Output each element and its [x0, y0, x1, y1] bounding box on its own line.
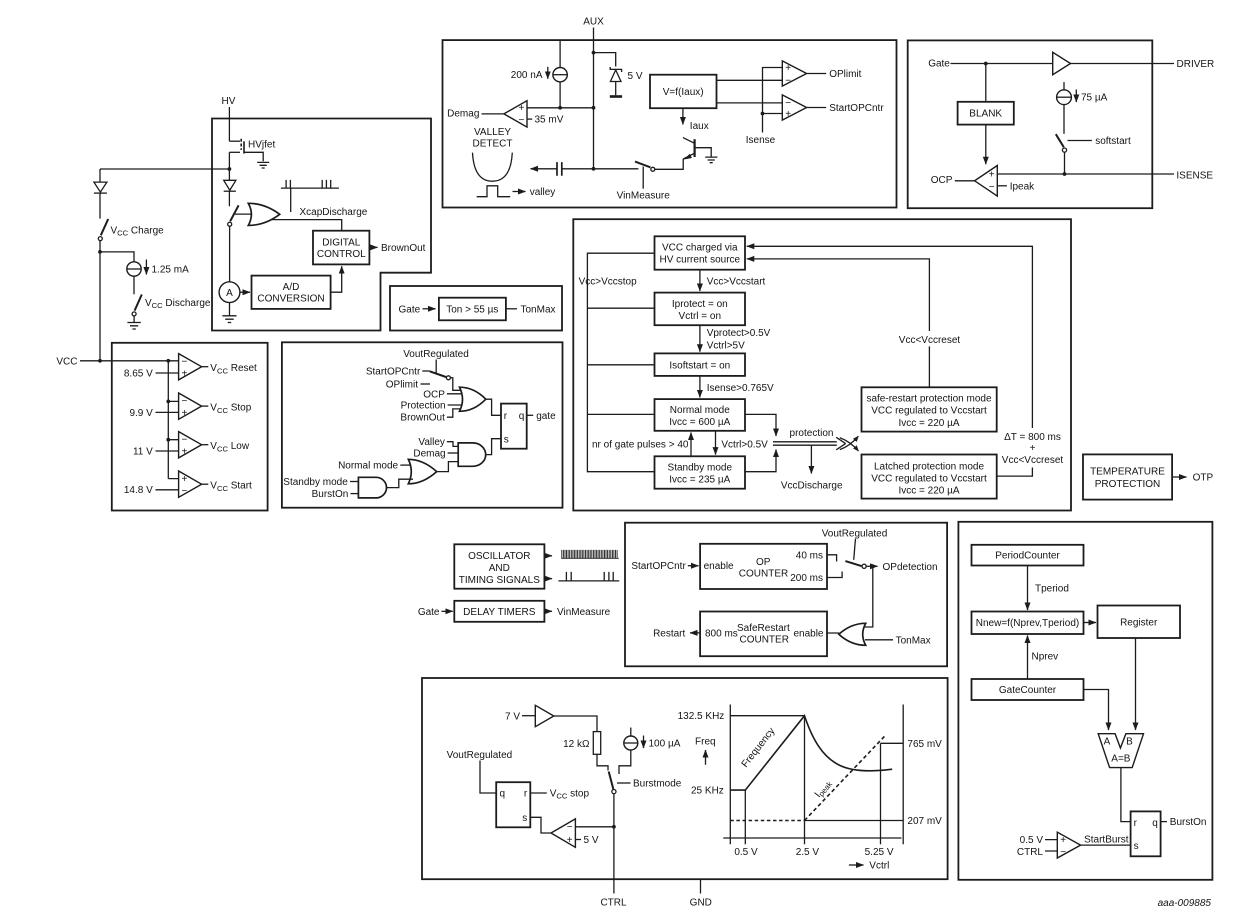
wire Demag output [482, 113, 504, 115]
comparator VCC Reset [124, 354, 257, 380]
svg-text:Vcc>Vccstop: Vcc>Vccstop [579, 276, 638, 287]
svg-text:OCP: OCP [423, 389, 445, 400]
block: gate drive logic [282, 342, 563, 507]
svg-text:132.5 KHz: 132.5 KHz [678, 711, 725, 722]
block Isoftstart on [655, 353, 746, 376]
svg-text:VCC charged via: VCC charged via [662, 243, 738, 254]
tick 2.5V [804, 716, 806, 845]
current source 75 uA [1057, 82, 1108, 105]
svg-text:Vcc<Vccreset: Vcc<Vccreset [899, 335, 961, 346]
wire VccDischarge arrow [810, 446, 812, 474]
wire Gate to buffer [951, 63, 1053, 65]
svg-text:HV current source: HV current source [660, 255, 741, 266]
comparator VCC Stop [129, 393, 251, 419]
svg-text:CTRL: CTRL [600, 898, 627, 909]
wire to 5V comparator [575, 826, 614, 828]
current source 200 nA [511, 40, 568, 110]
block Iprotect/Vctrl on [655, 293, 746, 326]
wire ISENSE [997, 173, 1174, 175]
svg-text:Freq: Freq [695, 737, 716, 748]
svg-text:DELAY TIMERS: DELAY TIMERS [463, 607, 536, 618]
svg-text:enable: enable [704, 561, 734, 572]
wire OTP arrow [1172, 476, 1186, 478]
block: AUX / valley detect [443, 40, 897, 207]
svg-text:TEMPERATURE: TEMPERATURE [1090, 467, 1165, 478]
block DELAY TIMERS [454, 601, 544, 622]
svg-text:800 ms: 800 ms [705, 628, 738, 639]
svg-text:+: + [785, 63, 791, 74]
wire Valley hook [447, 442, 459, 447]
svg-text:TonMax: TonMax [521, 304, 556, 315]
svg-text:XcapDischarge: XcapDischarge [300, 207, 368, 218]
svg-text:Ipeak: Ipeak [1010, 181, 1035, 192]
wire GateCounter to A [1084, 690, 1109, 731]
svg-text:Isense: Isense [746, 135, 776, 146]
wire BurstOn stub [351, 493, 360, 495]
switch VCC Discharge [132, 295, 211, 316]
arrow Vctrl [849, 864, 864, 866]
block Nnew function [972, 612, 1084, 635]
svg-text:0.5 V: 0.5 V [734, 847, 758, 858]
wire VoutRegulated stem [854, 539, 856, 560]
block PeriodCounter [972, 545, 1084, 566]
wire to VinMeasure switch [594, 168, 639, 170]
ground (ammeter) [222, 303, 236, 323]
svg-text:35 mV: 35 mV [535, 115, 564, 126]
curve Ipeak dashed [805, 734, 887, 820]
block GateCounter [972, 679, 1084, 700]
svg-text:nr of gate pulses > 40: nr of gate pulses > 40 [592, 439, 689, 450]
svg-text:s: s [522, 813, 527, 824]
buffer (driver) [1053, 52, 1071, 74]
wire Ipeak stub [997, 185, 1007, 187]
block: oscillator and timing signals [454, 544, 544, 588]
svg-text:HV: HV [222, 96, 236, 107]
ground (discharge) [127, 316, 140, 329]
block Ton > 55 us [439, 298, 506, 321]
switch OP detection select [845, 561, 866, 568]
svg-text:200 nA: 200 nA [511, 70, 543, 81]
svg-text:−: − [989, 182, 995, 193]
zener diode 5 V [610, 67, 643, 97]
block: VCC level comparators [112, 343, 268, 511]
wire normal to protection bus [745, 414, 776, 436]
svg-text:s: s [1134, 841, 1139, 852]
wire VinMeasure output [544, 610, 552, 612]
ground (HVjfet gate) [257, 162, 269, 168]
svg-text:11 V: 11 V [133, 446, 153, 457]
wire OCP [447, 393, 466, 395]
svg-text:5 V: 5 V [628, 71, 643, 82]
wire left rail (Vcc>Vccstop) [587, 253, 654, 472]
svg-text:Ivcc = 220 µA: Ivcc = 220 µA [898, 486, 959, 497]
wire state arrow 3 [699, 376, 701, 398]
svg-text:Tperiod: Tperiod [1035, 584, 1069, 595]
svg-text:Ivcc = 235 µA: Ivcc = 235 µA [669, 474, 730, 485]
svg-text:Vctrl>0.5V: Vctrl>0.5V [721, 439, 768, 450]
svg-text:−: − [182, 486, 188, 497]
level 207 mV dashed [730, 820, 804, 822]
svg-text:Ivcc = 600 µA: Ivcc = 600 µA [669, 417, 730, 428]
svg-text:+: + [182, 474, 188, 485]
wire 7V stub [522, 715, 535, 717]
svg-text:2.5 V: 2.5 V [796, 847, 820, 858]
tick 0.5V [744, 790, 746, 844]
svg-text:OSCILLATOR: OSCILLATOR [468, 551, 530, 562]
OR gate (XcapDischarge) [248, 203, 279, 225]
wire HV [228, 107, 230, 141]
svg-text:ΔT = 800 ms: ΔT = 800 ms [1004, 432, 1061, 443]
svg-text:VCC Stop: VCC Stop [210, 403, 251, 415]
wire 35 mV stub [527, 118, 532, 120]
svg-text:TonMax: TonMax [896, 635, 931, 646]
OR gate (restart enable) [839, 623, 866, 645]
svg-text:+: + [1060, 835, 1066, 846]
wire V=f to StartOPCntr [717, 102, 784, 104]
block TEMPERATURE PROTECTION [1083, 454, 1172, 499]
block Standby mode [655, 456, 746, 488]
svg-text:softstart: softstart [1095, 136, 1131, 147]
wire Nnew to Register [1084, 622, 1097, 624]
crossing switch to protection modes [840, 436, 859, 451]
svg-text:100 µA: 100 µA [649, 739, 681, 750]
svg-text:V=f(Iaux): V=f(Iaux) [663, 87, 704, 98]
wire resistor to switch [597, 754, 608, 770]
svg-text:25 KHz: 25 KHz [691, 786, 724, 797]
svg-text:PROTECTION: PROTECTION [1095, 479, 1161, 490]
wire 40 ms contact [827, 555, 837, 562]
wire VCC rail [167, 361, 169, 479]
svg-text:Valley: Valley [418, 437, 445, 448]
wire latched to VCC charged [747, 246, 1033, 476]
svg-text:Vcc<Vccreset: Vcc<Vccreset [1002, 455, 1064, 466]
wire valley-detect line with capacitor [531, 168, 558, 170]
svg-text:765 mV: 765 mV [907, 739, 942, 750]
svg-text:BurstOn: BurstOn [1170, 817, 1207, 828]
svg-text:COUNTER: COUNTER [739, 569, 788, 580]
svg-text:Vctrl>5V: Vctrl>5V [707, 340, 745, 351]
wire OPlimit stub [421, 383, 431, 385]
wire buffer to resistor [554, 716, 597, 732]
protection bus (hollow arrow) [773, 437, 846, 450]
svg-text:AUX: AUX [583, 17, 604, 28]
svg-text:9.9 V: 9.9 V [129, 408, 153, 419]
block OP COUNTER [700, 544, 827, 589]
svg-text:BrownOut: BrownOut [400, 413, 445, 424]
flip-flop r/s (gate latch) [501, 404, 527, 449]
svg-text:StartOPCntr: StartOPCntr [366, 366, 421, 377]
svg-text:DRIVER: DRIVER [1177, 59, 1215, 70]
svg-text:Restart: Restart [653, 628, 685, 639]
switch (StartOPCntr/OPlimit select) [430, 371, 451, 380]
svg-text:40 ms: 40 ms [796, 550, 823, 561]
svg-text:CTRL: CTRL [1017, 847, 1044, 858]
wire BrownOut hook [447, 409, 466, 417]
svg-text:Isoftstart = on: Isoftstart = on [669, 360, 730, 371]
svg-text:VoutRegulated: VoutRegulated [403, 349, 469, 360]
svg-text:Normal mode: Normal mode [338, 461, 398, 472]
svg-text:+: + [567, 835, 573, 846]
wire 200 ms contact [827, 572, 842, 578]
wire AUX vertical [593, 28, 595, 169]
waveform timing pulses [558, 572, 619, 581]
flip-flop burst latch [496, 782, 530, 827]
block: TonMax timer [390, 286, 562, 331]
axis right [902, 705, 904, 845]
curve frequency [730, 716, 892, 790]
svg-text:GND: GND [690, 898, 712, 909]
svg-text:StartOPCntr: StartOPCntr [631, 561, 686, 572]
svg-text:protection: protection [790, 428, 834, 439]
svg-text:s: s [504, 434, 509, 445]
wire OPdetection arrow [866, 565, 877, 567]
svg-text:A=B: A=B [1111, 753, 1131, 764]
wire Normal mode [400, 464, 414, 466]
svg-text:Gate: Gate [399, 305, 421, 316]
wire PeriodCounter to Nnew [1027, 566, 1029, 611]
resistor 12 kOhm [563, 732, 601, 755]
wire StartOPCntr stub [422, 370, 429, 372]
left rail: diode [94, 169, 107, 219]
svg-text:−: − [182, 357, 188, 368]
svg-text:Isense>0.765V: Isense>0.765V [707, 383, 774, 394]
wire source to softstart switch [1063, 105, 1065, 134]
svg-text:207 mV: 207 mV [907, 816, 942, 827]
svg-text:VinMeasure: VinMeasure [617, 190, 671, 201]
wire VCC stop output [530, 792, 547, 794]
node dot [98, 359, 102, 363]
switch (Xcap discharge) [228, 205, 257, 226]
wire switch to ISENSE [1064, 152, 1066, 174]
OR gate (fault OR) [460, 387, 486, 411]
block: HV startup / X-cap discharge [212, 119, 431, 331]
wire switch to ammeter [229, 226, 231, 281]
svg-text:VCC regulated to Vccstart: VCC regulated to Vccstart [871, 473, 987, 484]
block: burst period control [958, 522, 1212, 880]
comparator StartOPCntr [782, 95, 884, 120]
flip-flop burst on latch [1131, 811, 1161, 856]
diode (internal, to Xcap switch) [224, 169, 236, 206]
wire standby to protection bus [745, 450, 776, 472]
wire valley arrow [513, 191, 526, 193]
block V=f(Iaux) [650, 75, 717, 109]
svg-text:PeriodCounter: PeriodCounter [995, 551, 1060, 562]
wire VoutRegulated to q [480, 761, 496, 794]
wire OR to enable [827, 632, 841, 635]
wire OR output to digital control [272, 220, 342, 230]
svg-text:−: − [567, 822, 573, 833]
svg-text:VCC stop: VCC stop [550, 789, 590, 801]
wire StartOPCntr arrow [688, 565, 699, 567]
svg-text:StartBurst: StartBurst [1084, 835, 1129, 846]
wire BLANK to OCP [985, 125, 987, 165]
wire standby to normal arrow [690, 433, 692, 457]
wire AD to digital control [331, 266, 342, 292]
svg-text:75 µA: 75 µA [1081, 93, 1108, 104]
svg-text:BurstOn: BurstOn [312, 489, 349, 500]
block safe-restart protection mode [862, 387, 997, 431]
wire state arrow 2 [699, 325, 701, 352]
comparator Demag (valley) [504, 101, 527, 127]
svg-text:DIGITAL: DIGITAL [322, 238, 361, 249]
svg-text:gate: gate [536, 411, 556, 422]
svg-text:enable: enable [793, 628, 823, 639]
wire HVjfet source to junction [228, 152, 230, 169]
svg-text:A/D: A/D [283, 282, 300, 293]
wire StartBurst to s [1081, 844, 1131, 846]
svg-text:DETECT: DETECT [473, 139, 513, 150]
svg-text:12 kΩ: 12 kΩ [563, 739, 590, 750]
svg-text:StartOPCntr: StartOPCntr [829, 103, 884, 114]
svg-text:Iprotect = on: Iprotect = on [672, 299, 728, 310]
AND gate (standby+burst) [358, 477, 386, 498]
svg-text:VccDischarge: VccDischarge [781, 480, 843, 491]
svg-text:1.25 mA: 1.25 mA [152, 265, 190, 276]
ammeter A [219, 282, 240, 303]
svg-text:Gate: Gate [418, 607, 440, 618]
svg-text:OTP: OTP [1193, 473, 1214, 484]
wire safe-restart to VCC charged [747, 259, 930, 387]
block Latched protection mode [862, 455, 997, 499]
level 207 mV solid [805, 820, 904, 822]
svg-text:OCP: OCP [931, 175, 953, 186]
svg-text:VoutRegulated: VoutRegulated [822, 528, 888, 539]
svg-text:q: q [1152, 818, 1158, 829]
wire Register to B [1135, 638, 1137, 730]
wire normal to standby arrow [715, 431, 717, 455]
svg-text:BLANK: BLANK [969, 109, 1002, 120]
svg-text:Nprev: Nprev [1032, 652, 1059, 663]
svg-text:+: + [518, 103, 524, 114]
wire OR2 to AND1 [436, 462, 459, 472]
waveform clock comb [561, 550, 619, 558]
svg-text:aaa-009885: aaa-009885 [1158, 898, 1212, 909]
switch VinMeasure [617, 162, 671, 202]
svg-text:Standby mode: Standby mode [283, 477, 348, 488]
wire GateCounter to Nnew [1027, 636, 1029, 680]
wire Standby stub [350, 481, 360, 483]
wire BrownOut output [369, 246, 377, 248]
wire gate to BLANK [985, 64, 987, 102]
svg-text:GateCounter: GateCounter [999, 685, 1057, 696]
svg-text:0.5 V: 0.5 V [1020, 835, 1044, 846]
wire CTRL vertical [613, 794, 615, 894]
comparator VCC Start [124, 471, 252, 497]
svg-text:A: A [1104, 737, 1111, 748]
wire state arrow 1 [699, 270, 701, 291]
wire Demag + input [527, 107, 594, 109]
wire branch to current source [100, 252, 134, 262]
svg-text:VoutRegulated: VoutRegulated [447, 750, 513, 761]
svg-text:−: − [182, 396, 188, 407]
ground (transistor base) [705, 157, 717, 163]
node dT = 800 ms + Vcc<Vccreset [1002, 432, 1064, 466]
svg-text:−: − [182, 435, 188, 446]
svg-text:Demag: Demag [447, 108, 479, 119]
svg-text:VinMeasure: VinMeasure [557, 607, 611, 618]
svg-text:+: + [989, 169, 995, 180]
svg-text:Ton > 55 µs: Ton > 55 µs [446, 305, 498, 316]
block Register [1098, 606, 1181, 639]
comparator VCC Low [133, 432, 250, 458]
svg-text:−: − [1060, 847, 1066, 858]
svg-text:VCC Start: VCC Start [210, 481, 252, 493]
pulse waveform (Xcap timing) [281, 180, 339, 212]
wire Demag [448, 452, 459, 454]
svg-text:safe-restart protection mode: safe-restart protection mode [866, 394, 991, 405]
wire AND2 to OR2 [386, 479, 413, 487]
wire to left rail [100, 168, 229, 170]
svg-text:Ivcc = 220 µA: Ivcc = 220 µA [898, 418, 959, 429]
wire OR to r input [485, 399, 501, 415]
svg-text:AND: AND [489, 563, 510, 574]
wire VoutRegulated stem [435, 360, 437, 375]
wire buffer to DRIVER pin [1071, 63, 1175, 65]
svg-text:B: B [1126, 737, 1133, 748]
svg-text:BrownOut: BrownOut [381, 243, 426, 254]
svg-text:Latched protection mode: Latched protection mode [874, 461, 985, 472]
graph: frequency vs Vctrl [678, 705, 943, 872]
svg-text:OPlimit: OPlimit [386, 380, 418, 391]
wire OPdetection to OR [858, 566, 873, 627]
wire A=B to r [1121, 768, 1131, 822]
wire source to switch [619, 750, 631, 774]
svg-text:VCC: VCC [56, 356, 77, 367]
svg-text:Vctrl = on: Vctrl = on [679, 311, 722, 322]
svg-text:q: q [519, 411, 525, 422]
current source 1.25 mA [127, 260, 189, 277]
svg-text:Normal mode: Normal mode [670, 405, 730, 416]
wire gate output [527, 414, 534, 416]
svg-text:SafeRestart: SafeRestart [737, 623, 790, 634]
block: CTRL / frequency control [422, 678, 948, 879]
wire Isense rail [763, 68, 784, 133]
svg-text:ISENSE: ISENSE [1176, 170, 1213, 181]
wire comparator to s [530, 817, 551, 833]
pulse waveform (valley) [477, 186, 511, 197]
wire gate to delay timers [442, 610, 453, 612]
wire osc output 2 [544, 578, 552, 580]
svg-text:Nnew=f(Nprev,Tperiod): Nnew=f(Nprev,Tperiod) [976, 618, 1079, 629]
svg-text:5.25 V: 5.25 V [865, 847, 894, 858]
svg-text:VCC Low: VCC Low [210, 441, 250, 453]
wire BurstOn output [1161, 821, 1167, 823]
OR gate (mode OR) [408, 459, 436, 484]
wire to zener [594, 53, 616, 67]
wire GND stem [700, 879, 702, 893]
tick 5.25V [880, 743, 882, 844]
axis left [729, 705, 731, 845]
wire Iaux [682, 108, 684, 124]
svg-text:Vprotect>0.5V: Vprotect>0.5V [707, 328, 771, 339]
svg-text:−: − [785, 76, 791, 87]
svg-text:HVjfet: HVjfet [248, 140, 275, 151]
svg-text:TIMING SIGNALS: TIMING SIGNALS [459, 575, 540, 586]
comparator OCP [975, 166, 998, 197]
svg-text:14.8 V: 14.8 V [124, 485, 153, 496]
block A/D CONVERSION [252, 276, 331, 309]
switch softstart [1056, 134, 1131, 152]
block: supply state machine [573, 219, 1071, 510]
svg-text:Burstmode: Burstmode [633, 779, 682, 790]
svg-text:Standby mode: Standby mode [668, 462, 733, 473]
comparator 5 V [551, 819, 599, 847]
svg-text:COUNTER: COUNTER [739, 635, 788, 646]
level 765 mV [881, 742, 904, 744]
block: OP counter / safe restart counter [625, 523, 947, 667]
wire AND to s input [485, 439, 501, 455]
transistor HVjfet [229, 139, 275, 161]
